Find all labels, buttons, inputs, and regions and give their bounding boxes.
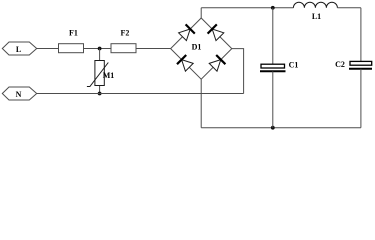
fuse F2 [111,29,136,53]
wire N line [37,93,244,95]
wire top rail [201,7,293,9]
svg-text:M1: M1 [103,71,115,80]
capacitor C2 [335,60,372,128]
varistor M1 [87,49,114,94]
node A (junction dot) [98,47,102,51]
diode D1b top-right [212,29,224,41]
wire F1 to node A [84,48,112,50]
svg-text:F2: F2 [121,29,130,38]
fuse F1 [59,29,84,53]
svg-text:C1: C1 [289,61,299,70]
diode D1c bottom-left [182,60,194,72]
wire N riser to bridge right vertex [232,49,244,94]
svg-text:D1: D1 [192,43,202,52]
svg-text:L1: L1 [312,12,321,21]
node C (junction dot top rail / C1) [271,6,275,10]
capacitor C1 [260,8,298,128]
wire L to F1 [37,48,59,50]
node B (junction dot M1/N) [98,92,102,96]
wire top rail after L1 [337,7,361,9]
wire bridge bottom vertex to bottom rail [200,79,202,128]
diamond outline [171,18,232,79]
svg-text:L: L [16,45,21,54]
wire bottom rail [201,127,361,129]
svg-text:N: N [16,90,22,99]
terminal L [2,42,36,55]
svg-text:F1: F1 [69,29,78,38]
bridge rectifier D1 [171,18,232,79]
terminal N [2,87,36,100]
node D (junction dot bottom rail / C1) [271,126,275,130]
wire right branch down to C2 [360,8,362,61]
diode D1d bottom-right [209,60,221,72]
svg-text:C2: C2 [335,60,345,69]
inductor L1 [293,2,337,21]
diode D1a top-left [179,29,191,41]
wire F2 to bridge left vertex [136,48,171,50]
wire bridge top vertex to top rail [200,8,202,18]
